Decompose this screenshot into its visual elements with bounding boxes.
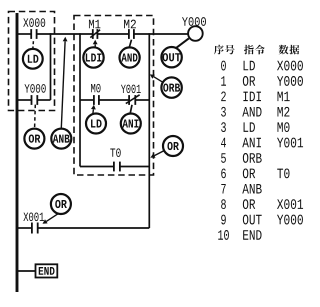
instruction LD (M0) (86, 114, 106, 134)
wire T0 rung right (120, 166, 149, 168)
instruction LDI (M1) (83, 47, 103, 67)
END box (36, 264, 58, 277)
table row 1 OR Y000 (221, 76, 303, 86)
wire Y000 branch rail to contact (17, 99, 32, 101)
wire inner-left junction vertical (79, 33, 81, 166)
table row 6 OR T0 (221, 168, 289, 178)
pointer OR to T0 corner (154, 151, 164, 156)
table header: 序号 指令 数据 (214, 45, 299, 55)
connector X000 to LD (32, 41, 35, 48)
instruction ORB (161, 77, 181, 97)
pointer OUT to coil (176, 38, 189, 48)
table row 2 IDI M1 (221, 91, 289, 101)
pointer ANB to rung1 (61, 41, 65, 128)
connector AND to M2 (129, 40, 131, 48)
pointer LDI to M1 (94, 44, 96, 47)
connector ANI to Y001 (130, 105, 132, 114)
wire rung2 junction to M0 (80, 99, 94, 101)
table row 4 ANI Y001 (221, 138, 303, 148)
contact M2 (124, 20, 136, 39)
wire rung1 rail to X000 (17, 33, 31, 35)
pointer OR to X001 contact (46, 213, 59, 221)
dashed group box 2 (branch block) (74, 16, 154, 176)
contact X000 (23, 18, 45, 39)
wire X001 rung contact to right junction (38, 227, 150, 229)
wire T0 rung left (80, 166, 114, 168)
table row 7 ANB (221, 184, 261, 193)
instruction ANI (Y001) (121, 114, 141, 134)
table row 3 LD M0 (221, 122, 289, 132)
pointer ORB to junction (154, 77, 163, 83)
dashed group box 1 (LD/OR block) (9, 12, 55, 111)
contact M0 (91, 84, 100, 105)
wire rung2 Y001 to right junction (135, 99, 149, 101)
wire rung1 M1 to M2 (97, 33, 128, 35)
instruction ANB (51, 129, 71, 149)
wire rung2 M0 to Y001 (99, 99, 129, 101)
wire rung1 M2 to coil Y000 (134, 33, 188, 35)
instruction AND (M2) (120, 47, 140, 67)
wire rung1 X000 to M1 (37, 33, 93, 35)
table row 8 OR X001 (221, 199, 303, 209)
wire END rung (17, 270, 36, 272)
contact T0 (110, 148, 120, 171)
contact M1 (normally closed) (89, 20, 100, 39)
table row 3 AND M2 (221, 107, 289, 117)
wire Y000 branch contact to junction (37, 99, 50, 101)
instruction OUT (161, 47, 181, 67)
instruction OR (Y000) (24, 129, 44, 149)
contact X001 (23, 212, 44, 233)
pointer LD to M0 (92, 109, 95, 113)
table row 0 LD X000 (221, 61, 303, 71)
table row 9 OUT Y000 (221, 215, 303, 225)
wire X001 rung rail to contact (17, 227, 32, 229)
wire right junction vertical (148, 33, 150, 228)
contact Y000 (24, 84, 45, 105)
coil Y000 (182, 17, 206, 41)
table row 5 ORB (221, 153, 262, 163)
instruction LD (X000) (23, 49, 43, 69)
connector Y000 to OR (34, 105, 37, 128)
table row 10 END (218, 230, 261, 240)
instruction OR (X001) (51, 194, 71, 214)
wire parallel junction vertical (50, 33, 52, 100)
instruction OR (T0) (163, 136, 183, 156)
contact Y001 (normally closed) (121, 85, 141, 105)
left power rail (16, 13, 19, 292)
